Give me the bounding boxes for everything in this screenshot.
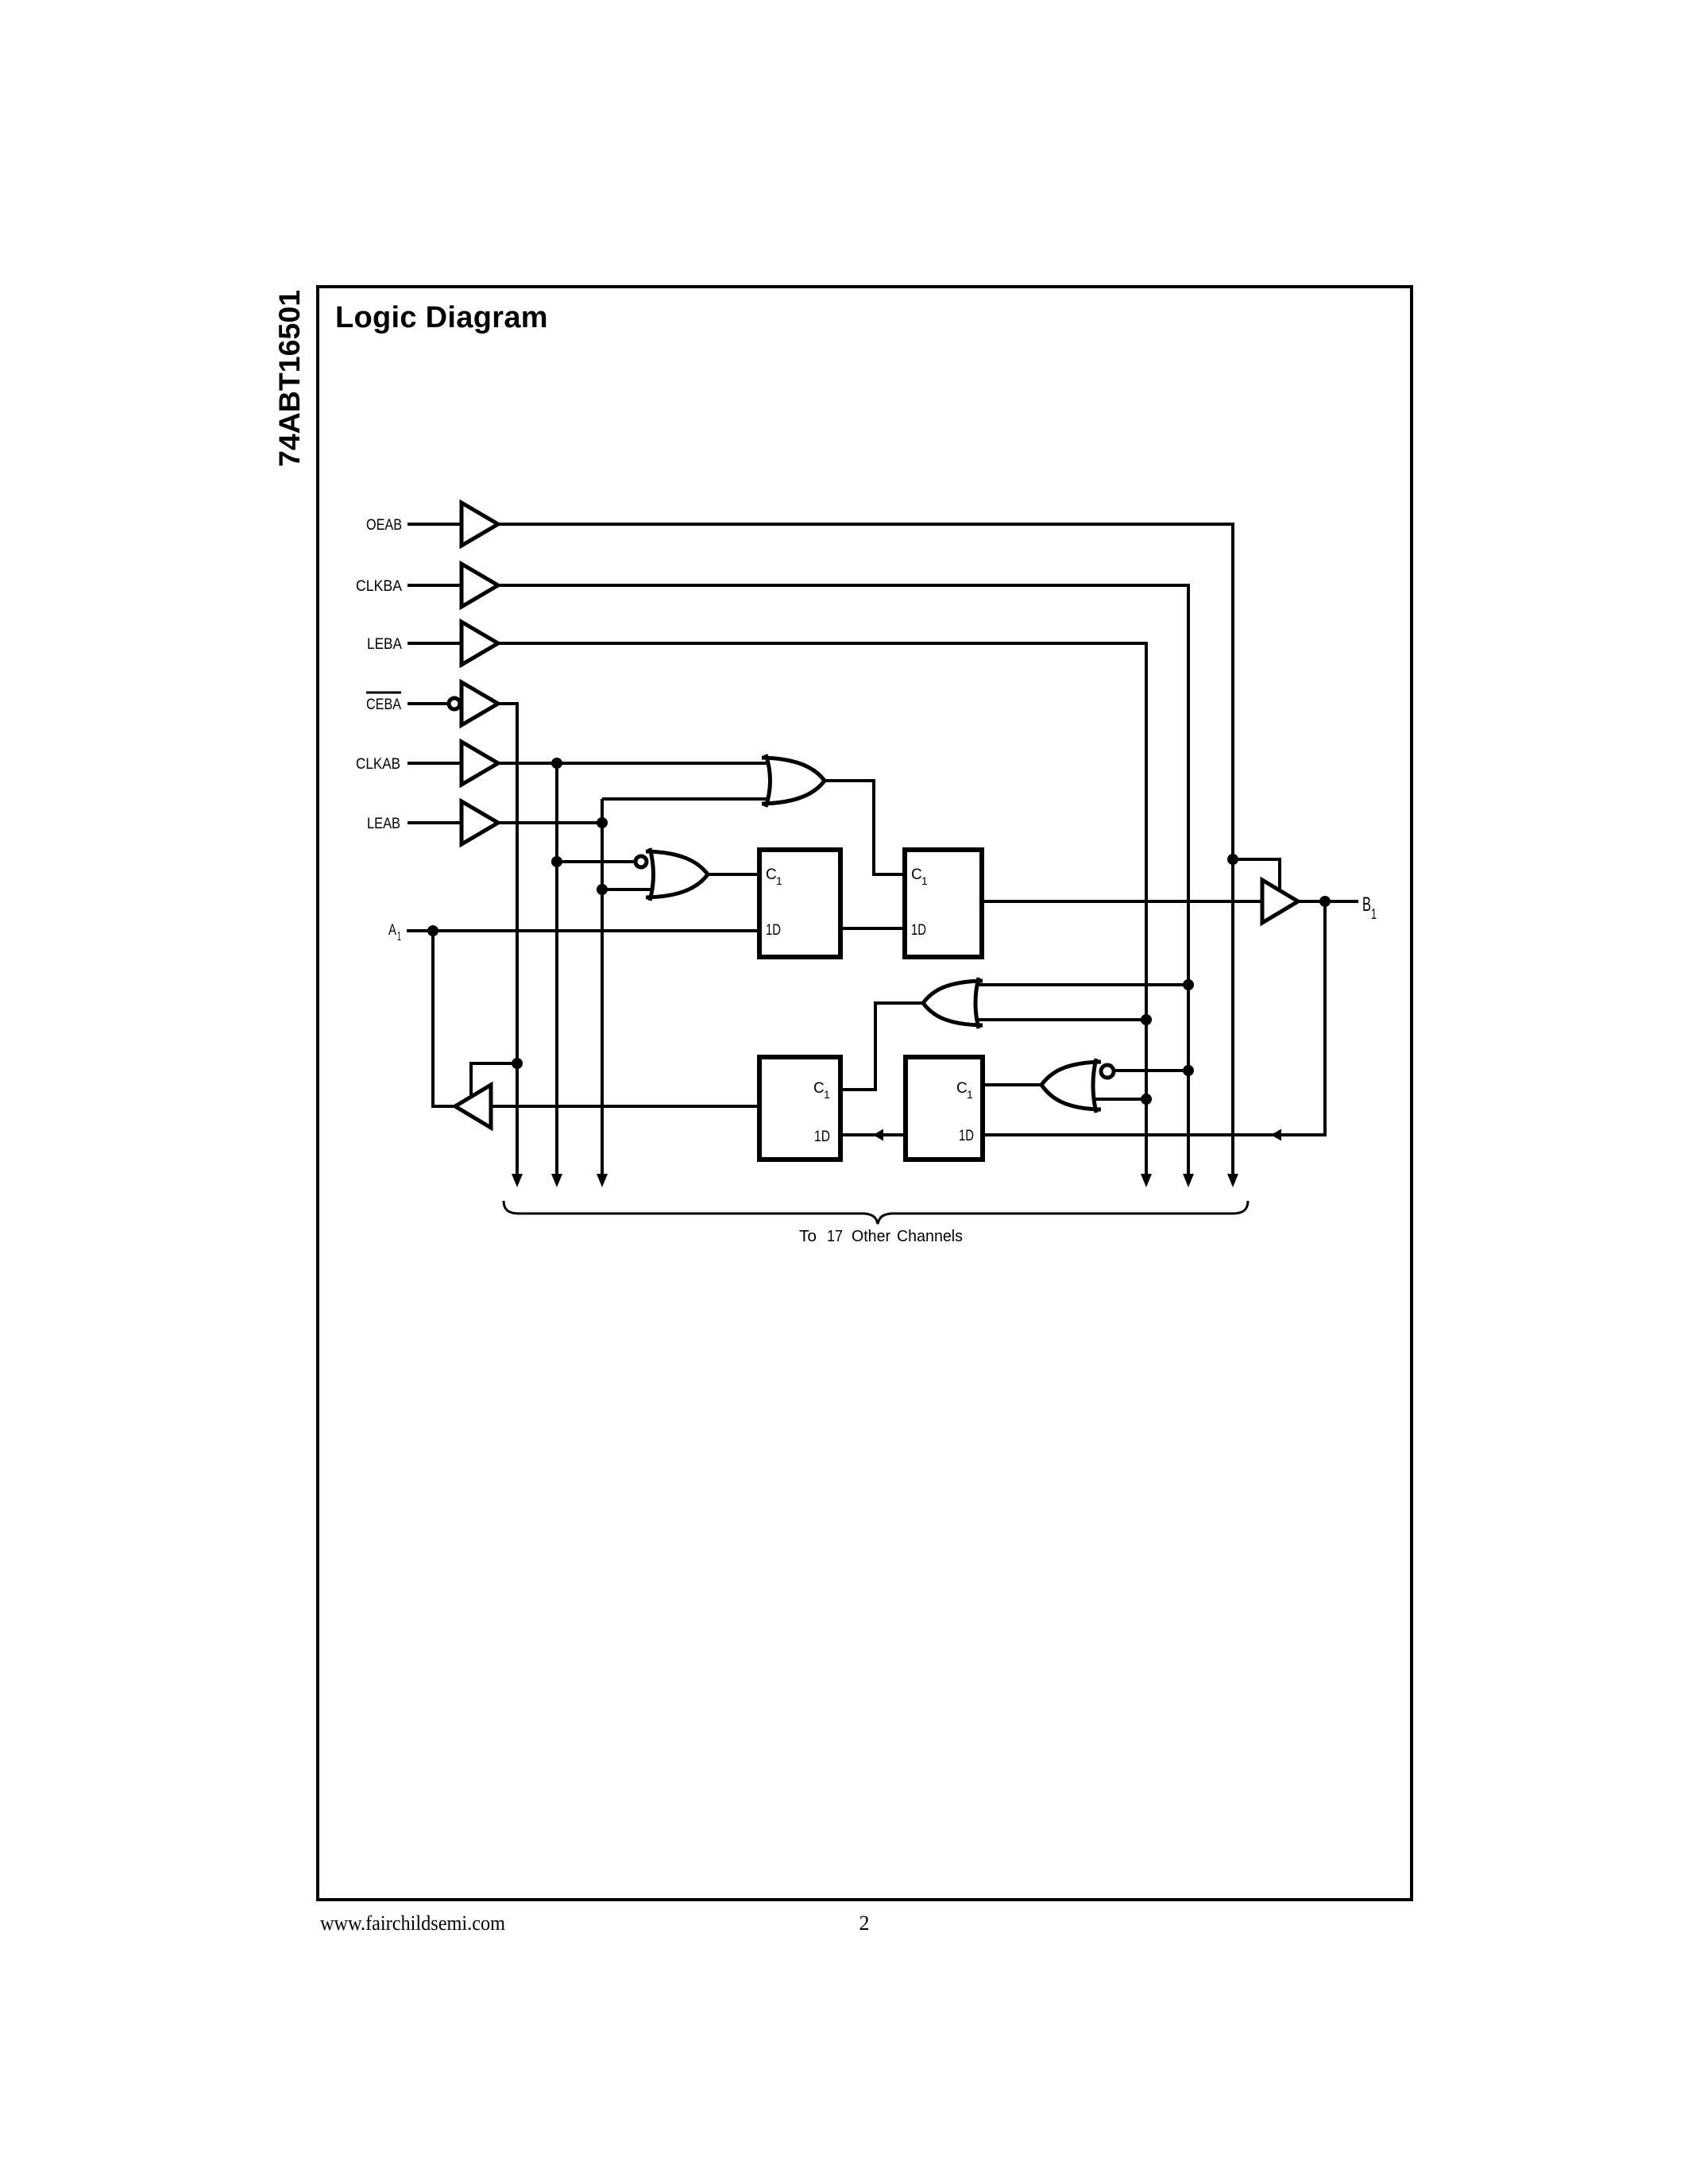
- svg-text:1: 1: [967, 1088, 973, 1101]
- svg-text:B: B: [1362, 893, 1371, 916]
- svg-text:1: 1: [397, 930, 401, 943]
- svg-text:Other: Other: [852, 1228, 890, 1245]
- svg-text:1D: 1D: [911, 922, 926, 939]
- svg-text:To: To: [799, 1228, 817, 1245]
- svg-text:Logic Diagram: Logic Diagram: [335, 301, 548, 334]
- svg-text:1: 1: [1371, 906, 1377, 922]
- svg-text:CEBA: CEBA: [366, 696, 401, 713]
- svg-text:C: C: [911, 866, 922, 883]
- svg-text:17: 17: [827, 1228, 843, 1245]
- svg-text:1: 1: [824, 1088, 830, 1101]
- svg-text:1D: 1D: [959, 1128, 974, 1144]
- svg-text:LEBA: LEBA: [367, 636, 402, 653]
- svg-text:Channels: Channels: [897, 1228, 963, 1245]
- svg-text:CLKBA: CLKBA: [356, 578, 402, 595]
- svg-text:A: A: [388, 922, 396, 939]
- svg-text:LEAB: LEAB: [367, 816, 400, 832]
- svg-text:1: 1: [776, 874, 782, 887]
- svg-text:1D: 1D: [766, 922, 781, 939]
- svg-text:2: 2: [859, 1912, 870, 1935]
- svg-text:C: C: [766, 866, 777, 883]
- svg-text:C: C: [956, 1080, 968, 1097]
- svg-text:1D: 1D: [814, 1129, 830, 1145]
- svg-text:www.fairchildsemi.com: www.fairchildsemi.com: [320, 1912, 505, 1935]
- svg-text:OEAB: OEAB: [366, 517, 402, 534]
- svg-text:74ABT16501: 74ABT16501: [272, 290, 306, 467]
- svg-text:C: C: [813, 1080, 825, 1097]
- svg-text:CLKAB: CLKAB: [356, 756, 400, 773]
- svg-text:1: 1: [921, 874, 928, 887]
